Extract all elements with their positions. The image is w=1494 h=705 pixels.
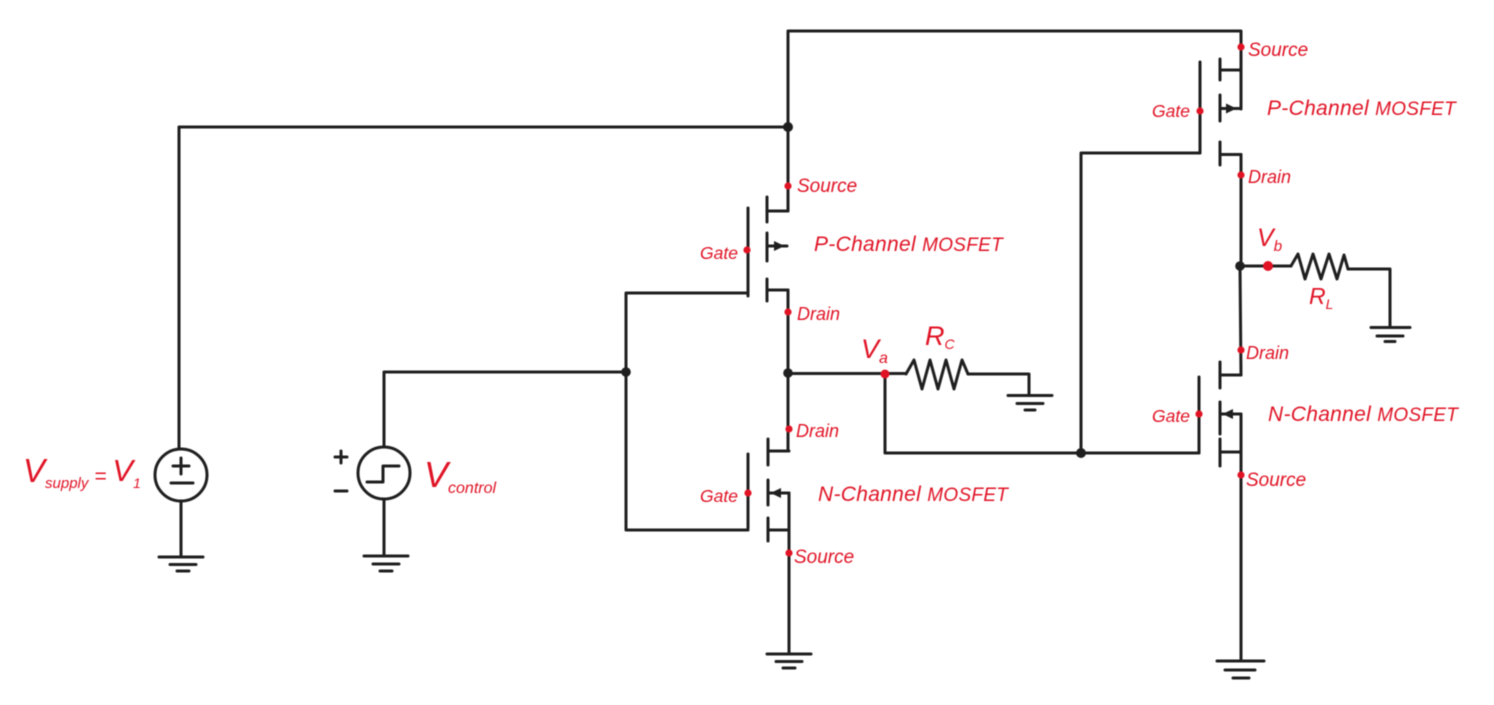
arrow of Q2 (points left) bbox=[771, 488, 782, 498]
wire: Q3 drain down to node B bbox=[1240, 155, 1243, 267]
svg-text:Drain: Drain bbox=[1248, 167, 1291, 187]
svg-text:Gate: Gate bbox=[700, 486, 738, 506]
voltage source V_supply bbox=[155, 449, 207, 501]
transistor Q1 P-Channel MOSFET (middle) bbox=[747, 208, 750, 296]
arrow of Q3 (points right) bbox=[1226, 104, 1237, 114]
transistor Q4 N-Channel MOSFET (right) bbox=[1198, 377, 1201, 453]
ground (RL) bbox=[1371, 328, 1410, 342]
svg-text:N-Channel MOSFET: N-Channel MOSFET bbox=[818, 483, 1009, 506]
wire: node A down into Q2 drain bbox=[787, 373, 790, 451]
svg-text:Source: Source bbox=[1248, 40, 1308, 61]
svg-text:Source: Source bbox=[794, 547, 854, 568]
transistor Q3 P-Channel MOSFET (right) bbox=[1199, 62, 1202, 153]
wire: Q4 source to ground bbox=[1240, 452, 1243, 661]
junction node dots (black) bbox=[783, 122, 793, 132]
wire: Q1 drain down to node A bbox=[787, 290, 790, 373]
wire: branch down to N gate bbox=[626, 372, 748, 530]
ground (right) bbox=[1217, 661, 1264, 678]
resistor RC bbox=[906, 360, 968, 389]
arrow of Q1 (points right) bbox=[774, 241, 785, 251]
svg-text:Drain: Drain bbox=[797, 304, 840, 324]
wire: Vsupply to ground bbox=[180, 501, 183, 557]
svg-text:Gate: Gate bbox=[700, 243, 738, 263]
svg-text:Source: Source bbox=[797, 176, 857, 197]
wire: node B to resistor RL bbox=[1240, 265, 1291, 268]
wire: Vcontrol to gate junction bbox=[384, 372, 626, 447]
wire: Vsupply horizontal to top junction bbox=[179, 127, 788, 449]
wire: feedback up to right P gate bbox=[1081, 153, 1200, 453]
resistor RL bbox=[1291, 254, 1348, 279]
svg-text:P-Channel MOSFET: P-Channel MOSFET bbox=[1267, 97, 1457, 120]
svg-text:Drain: Drain bbox=[1246, 343, 1289, 363]
voltage source V_control bbox=[358, 447, 410, 499]
red terminal dots bbox=[743, 43, 1273, 556]
wire: Q2 source to ground bbox=[788, 530, 791, 654]
svg-text:Drain: Drain bbox=[796, 421, 839, 441]
wire: branch up to P gate bbox=[626, 293, 748, 372]
svg-text:Gate: Gate bbox=[1152, 101, 1190, 121]
wire: RL to ground bbox=[1348, 269, 1390, 327]
arrow of Q4 (points left) bbox=[1223, 409, 1234, 419]
ground (V_supply) bbox=[159, 557, 203, 571]
svg-text:Gate: Gate bbox=[1152, 406, 1190, 426]
transistor Q2 N-Channel MOSFET (middle) bbox=[747, 454, 750, 528]
wire: node B down into Q4 drain bbox=[1240, 266, 1241, 375]
ground (V_control) bbox=[364, 556, 408, 571]
svg-text:Source: Source bbox=[1246, 470, 1306, 491]
wire: RC to ground bbox=[968, 374, 1029, 395]
wire: Vcontrol to ground bbox=[383, 499, 386, 556]
wire: middle vertical rail up bbox=[788, 31, 1241, 211]
ground (RC) bbox=[1008, 396, 1052, 411]
wire: feedback Va down and right bbox=[885, 374, 1199, 453]
svg-text:N-Channel MOSFET: N-Channel MOSFET bbox=[1268, 403, 1459, 426]
wire: node A to resistor RC bbox=[788, 372, 906, 375]
svg-text:P-Channel MOSFET: P-Channel MOSFET bbox=[814, 233, 1004, 256]
ground (middle) bbox=[767, 654, 811, 668]
